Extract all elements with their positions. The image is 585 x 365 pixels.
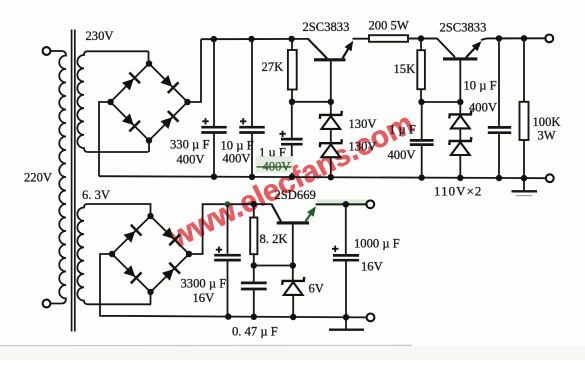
green smear artifact: [317, 200, 367, 207]
capacitor 1000uF lower lead: [345, 262, 347, 318]
wire (ZD5 anode to rail): [292, 294, 294, 317]
capacitor C4 lower lead: [421, 146, 423, 178]
svg-text:100K: 100K: [533, 115, 561, 129]
svg-text:1 µ F: 1 µ F: [389, 123, 416, 137]
wire (bridge2 AC bottom to winding bottom): [150, 292, 153, 304]
wire (ZD4 anode to rail): [459, 154, 461, 178]
junction (rail x=330): [328, 174, 334, 180]
junction (bottom rail): [251, 314, 257, 320]
transformer primary winding 220V: [50, 51, 66, 304]
transformer primary terminal (bottom): [43, 300, 51, 308]
junction (8.2K top): [251, 201, 257, 207]
capacitor 330uF lower lead: [213, 134, 215, 177]
transformer primary terminal (top): [43, 47, 51, 55]
zener stack wire (Q2 base down): [459, 102, 461, 115]
bridge2 right junction: [186, 251, 192, 257]
wire: [50, 50, 61, 52]
output terminal -: [546, 174, 554, 182]
photo edge line: [0, 344, 412, 346]
transformer secondary winding 230V: [77, 51, 148, 152]
resistor R2 200 5W: [369, 35, 408, 42]
output terminal +: [545, 35, 553, 43]
capacitor 10uF 400V lead: [251, 39, 253, 126]
junction (rail x=252): [249, 174, 255, 180]
capacitor 10uF 400V output lead: [498, 38, 500, 126]
resistor 15K lead: [420, 39, 422, 51]
resistor R5 8.2K: [250, 218, 257, 255]
svg-text:6. 3V: 6. 3V: [82, 188, 110, 202]
output terminal - (bottom): [367, 314, 375, 322]
zener ZD2 130V: [320, 139, 342, 157]
bridge rectifier 2 (6.3V) frame: [112, 216, 189, 292]
svg-text:8. 2K: 8. 2K: [260, 232, 288, 246]
capacitor 330uF 400V lead: [213, 39, 215, 126]
resistor R3 15K: [417, 50, 425, 89]
junction (Q2 base node): [457, 99, 463, 105]
diode D7 (bridge2 lower-left): [124, 265, 142, 283]
wire negative rail (top section): [99, 176, 546, 178]
svg-text:330 µ F: 330 µ F: [170, 138, 209, 152]
diode D8 (bridge2 lower-right): [162, 263, 180, 281]
polarity + (C3): [279, 131, 285, 137]
ground (top section): [512, 178, 538, 196]
transistor Q2 base wire: [459, 60, 461, 102]
wire (ZD2 anode to rail): [330, 156, 332, 177]
junction (1000uF top): [343, 201, 349, 207]
junction (15K/1uF node): [418, 99, 424, 105]
transistor Q3 emitter arrow (green): [306, 213, 312, 222]
highlighted label 400V (C3) green box: [256, 156, 294, 173]
bridge2 top junction: [147, 213, 153, 219]
capacitor C8 1000uF 16V: [333, 254, 359, 257]
transistor Q3 base bar: [277, 221, 309, 224]
wire (bridge2 DC+ up to collector rail): [189, 204, 272, 254]
capacitor C5 10uF 400V: [488, 126, 511, 129]
resistor R4 100K 3W: [520, 102, 529, 140]
wire (ZD1 anode to ZD2 cathode): [330, 128, 332, 143]
capacitor 10uF lower lead: [251, 134, 253, 177]
zener ZD5 6V: [282, 277, 304, 295]
wire (bridge1 AC bottom to winding 230V bottom): [148, 141, 150, 153]
junction (10uF top): [248, 36, 254, 42]
transistor Q1 base wire: [330, 61, 332, 102]
polarity + (C8): [332, 246, 338, 252]
junction (ground node): [521, 175, 527, 181]
junction (bottom rail): [290, 314, 296, 320]
transformer secondary winding 6.3V: [77, 204, 151, 304]
capacitor C4 1uF 400V: [410, 139, 434, 142]
bridge1 left junction: [107, 99, 113, 105]
capacitor 1uF 400V (2) upper lead: [421, 102, 423, 139]
junction (330uF top): [211, 36, 217, 42]
polarity + (C2): [240, 118, 246, 124]
svg-text:110V×2: 110V×2: [434, 184, 482, 198]
capacitor 3300uF lead: [227, 204, 229, 254]
capacitor 3300uF lower lead: [227, 261, 229, 316]
svg-text:3W: 3W: [538, 129, 556, 143]
transistor Q2 2SC3833 base bar: [443, 57, 477, 60]
resistor 8.2K lower lead: [253, 254, 255, 265]
bridge rectifier 1 (230V) frame: [111, 64, 188, 141]
wire (winding 230V top to bridge1 AC top): [148, 51, 150, 63]
junction (bottom rail): [225, 313, 231, 319]
wire (bridge1 DC- to negative rail): [99, 102, 111, 176]
junction (15K top): [418, 35, 424, 41]
svg-text:400V: 400V: [469, 101, 497, 115]
resistor 27K lead: [291, 39, 293, 50]
svg-text:200 5W: 200 5W: [369, 19, 409, 33]
wire (Q1 emitter to R2): [353, 38, 370, 40]
bridge2 left junction: [109, 251, 115, 257]
svg-text:400V: 400V: [223, 152, 251, 166]
resistor 100K lower lead: [523, 140, 525, 178]
svg-text:27K: 27K: [262, 60, 284, 74]
svg-text:2SD669: 2SD669: [275, 188, 316, 202]
junction (rail x=291): [289, 174, 295, 180]
zener ZD1 130V: [320, 111, 342, 129]
junction (10uF/400V top): [496, 35, 502, 41]
polarity + (C1): [202, 118, 208, 124]
resistor R1 27K: [288, 50, 297, 90]
junction (100K top): [521, 35, 527, 41]
diode D6 (bridge2 upper-right): [162, 227, 180, 245]
bridge1 bottom junction: [146, 137, 152, 143]
transistor Q1 2SC3833 collector wire: [308, 39, 327, 59]
wire (bridge1 DC+ to top bus): [188, 39, 202, 102]
svg-text:16V: 16V: [193, 291, 215, 305]
transformer core: [72, 30, 75, 332]
transistor Q1 emitter arrow: [343, 47, 350, 58]
svg-text:3300 µ F: 3300 µ F: [181, 277, 227, 291]
svg-text:400V: 400V: [177, 153, 205, 167]
diode D1 (bridge1 upper-left): [122, 73, 140, 91]
junction (rail x=460): [457, 175, 463, 181]
junction (8.2K/0.47uF node): [251, 262, 257, 268]
capacitor 0.47uF lower lead: [253, 290, 255, 317]
zener ZD4 130V: [449, 137, 471, 155]
svg-text:0. 47 µ F: 0. 47 µ F: [232, 325, 278, 339]
svg-text:15K: 15K: [394, 62, 416, 76]
junction (rail x=499): [496, 175, 502, 181]
bridge2 bottom junction: [147, 289, 153, 295]
polarity + (C6): [216, 247, 222, 253]
resistor 27K lower lead: [291, 90, 293, 102]
diode D3 (bridge1 lower-left): [122, 114, 140, 132]
zener ZD3 130V: [449, 110, 471, 128]
junction (bottom rail): [343, 314, 349, 320]
capacitor 1000uF lead: [345, 204, 347, 254]
junction (3300uF top, green tint): [225, 201, 231, 207]
svg-text:6V: 6V: [309, 282, 324, 296]
svg-text:10 µ F: 10 µ F: [464, 79, 497, 93]
diode D4 (bridge1 lower-right): [161, 111, 179, 129]
wire (Q2 emitter to output bus): [481, 38, 546, 40]
svg-text:220V: 220V: [24, 171, 52, 185]
wire (winding 6.3V top to bridge2 AC top): [149, 204, 152, 216]
node wire (8.2K bottom to Q3 base): [254, 265, 293, 267]
capacitor C6 3300uF 16V: [214, 254, 241, 257]
junction (rail x=214): [211, 174, 217, 180]
wire top bus (DC+ 330V): [201, 38, 309, 40]
svg-text:2SC3833: 2SC3833: [303, 20, 350, 34]
resistor 100K lead: [523, 38, 525, 102]
svg-text:130V: 130V: [349, 117, 377, 131]
capacitor 1uF 400V upper lead: [291, 102, 293, 138]
transistor Q2 emitter arrow: [466, 47, 476, 57]
capacitor 1uF lower lead: [291, 146, 293, 178]
zener stack wire (Q1 base down): [330, 102, 332, 115]
junction (Q3 base node): [290, 262, 296, 268]
output terminal + (bottom): [366, 200, 374, 208]
wire (R2 to Q2 collector): [408, 39, 455, 58]
svg-text:400V: 400V: [388, 148, 416, 162]
ground (bottom section): [329, 317, 364, 330]
transistor Q3 base wire: [292, 224, 294, 265]
diode D5 (bridge2 upper-left): [124, 225, 142, 243]
svg-text:16V: 16V: [361, 260, 383, 274]
svg-text:10 µ F: 10 µ F: [221, 139, 254, 153]
svg-text:1000 µ F: 1000 µ F: [354, 237, 400, 251]
wire (Q3 emitter to output): [316, 203, 367, 205]
capacitor C7 0.47uF: [241, 282, 267, 285]
resistor 15K lower lead: [420, 89, 422, 102]
bridge1 top junction: [146, 60, 152, 66]
svg-text:2SC3833: 2SC3833: [440, 21, 487, 35]
junction (27K top): [288, 36, 294, 42]
capacitor C2 10uF 400V: [239, 126, 264, 129]
diode D2 (bridge1 upper-right): [161, 75, 179, 93]
capacitor 0.47uF upper lead: [253, 266, 255, 282]
wire (ZD3 anode to ZD4): [459, 127, 461, 141]
capacitor C1 330uF 400V: [201, 126, 226, 129]
resistor 8.2K lead: [253, 204, 255, 217]
svg-text:230V: 230V: [86, 29, 114, 43]
transistor Q3 2SD669 collector wire: [272, 204, 281, 221]
capacitor C5 lower lead: [498, 134, 500, 178]
junction (Q1 base node): [328, 99, 334, 105]
node wire (27K bottom to Q1 base): [292, 101, 331, 103]
junction (rail x=421): [419, 174, 425, 180]
capacitor C3 1uF 400V: [281, 138, 303, 141]
svg-text:130V: 130V: [349, 140, 377, 154]
wire (bridge2 DC- down to bottom rail): [100, 254, 366, 317]
bridge1 right junction: [184, 99, 190, 105]
zener wire (Q3 base to ZD5): [292, 266, 294, 282]
junction (27K/1uF node): [289, 99, 295, 105]
node wire (15K bottom to Q2 base): [421, 101, 460, 103]
transistor Q1 2SC3833 base bar: [314, 58, 346, 61]
